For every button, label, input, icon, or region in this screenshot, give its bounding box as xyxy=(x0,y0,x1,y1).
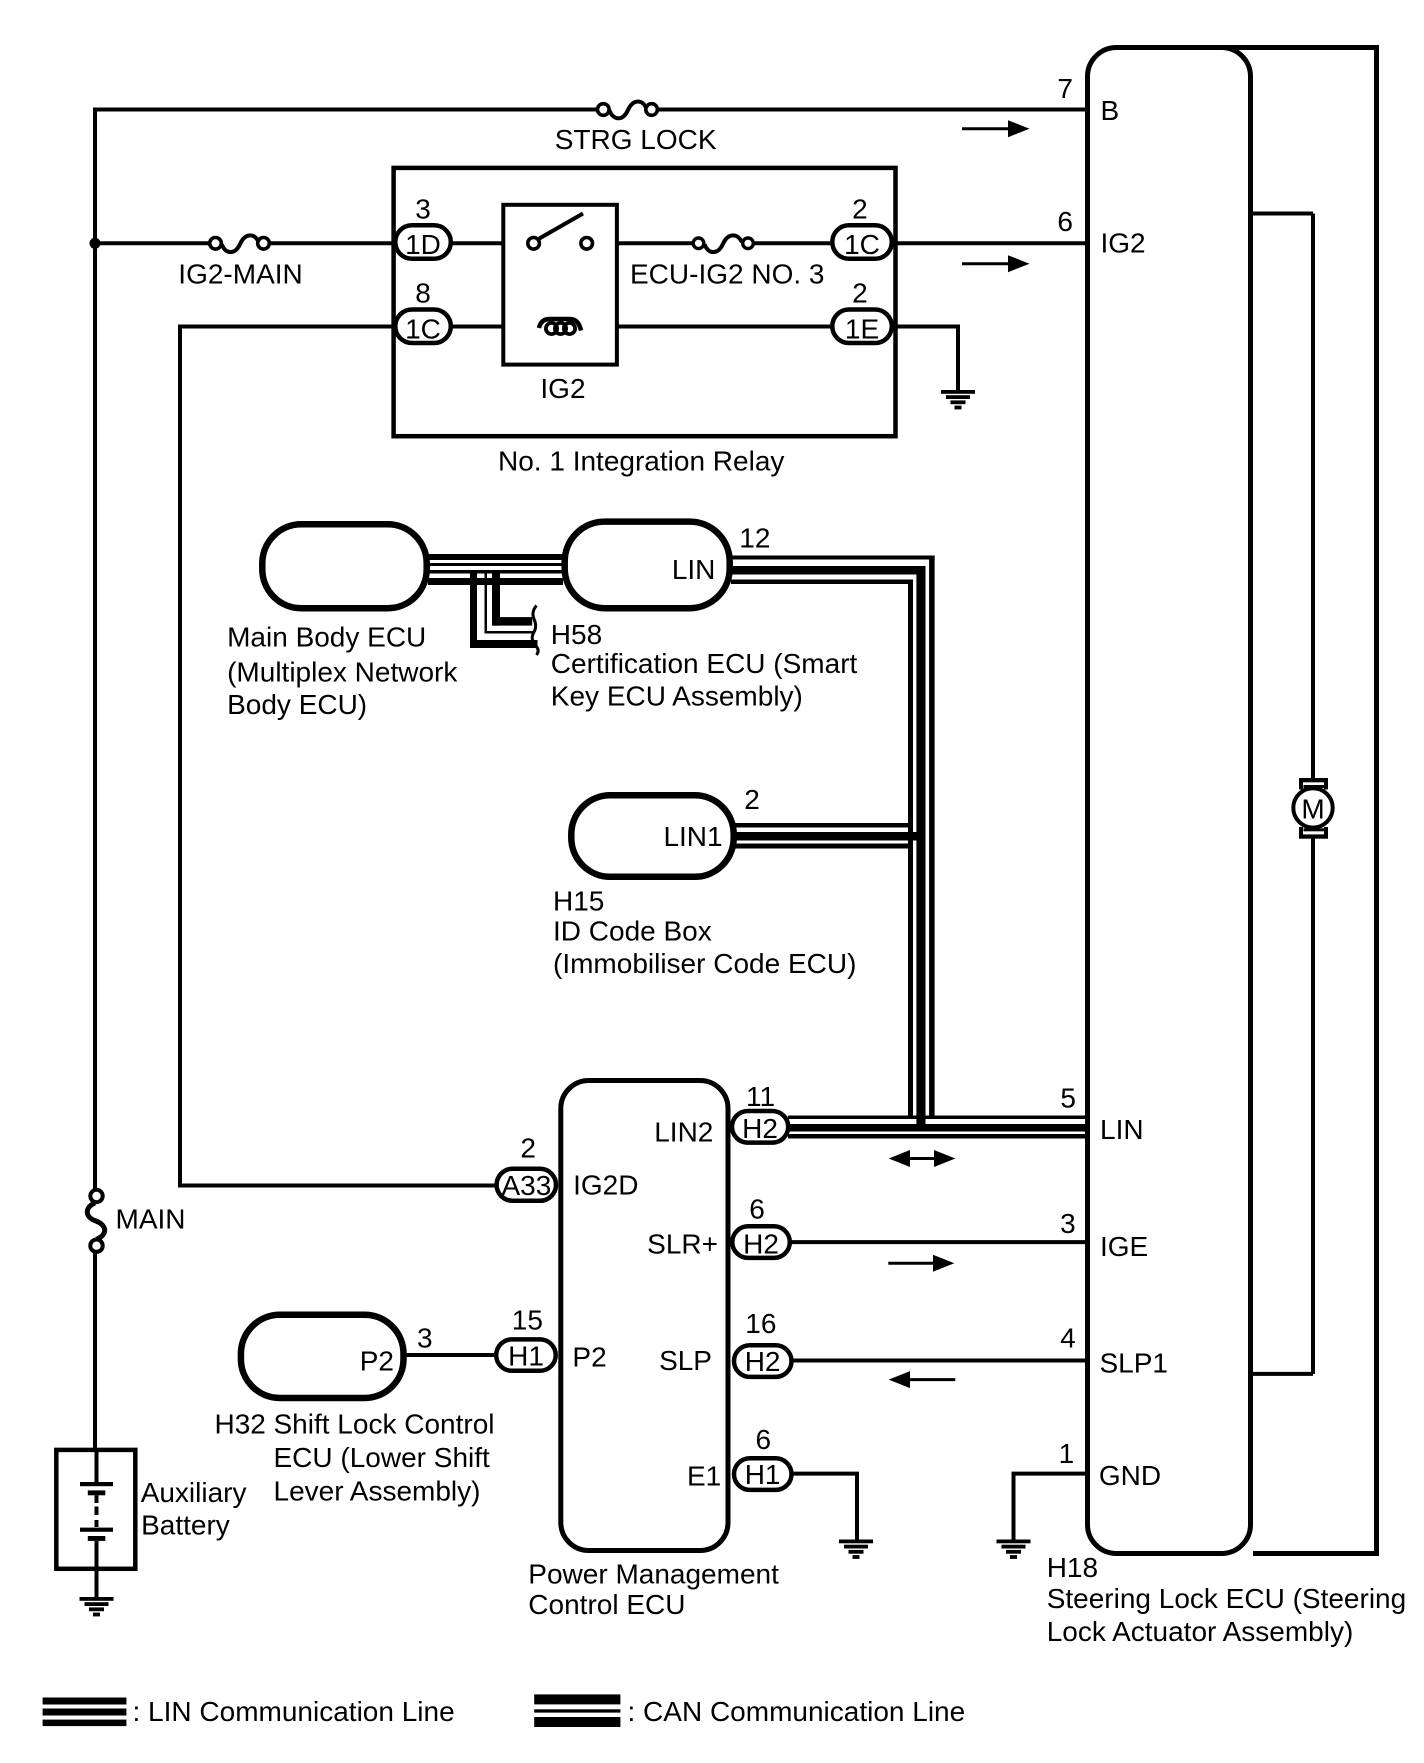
svg-text:12: 12 xyxy=(739,522,770,553)
pin 5 LIN xyxy=(1060,1083,1143,1146)
CAN/LIN band main body to certification ECU xyxy=(428,554,563,585)
svg-text:: CAN Communication Line: : CAN Communication Line xyxy=(628,1696,966,1727)
svg-text:LIN: LIN xyxy=(1100,1114,1144,1145)
svg-text:Lever Assembly): Lever Assembly) xyxy=(274,1476,481,1507)
fuse STRG LOCK xyxy=(555,102,717,155)
LIN band LIN1 to vertical band xyxy=(735,823,926,849)
arrow left SLP1 row xyxy=(889,1371,956,1388)
wire motor bottom xyxy=(1253,839,1313,1374)
svg-text:H18: H18 xyxy=(1047,1552,1098,1583)
svg-text:: LIN Communication Line: : LIN Communication Line xyxy=(133,1696,455,1727)
svg-text:ID Code Box: ID Code Box xyxy=(553,916,712,947)
svg-text:SLR+: SLR+ xyxy=(647,1229,718,1260)
svg-text:4: 4 xyxy=(1060,1323,1076,1354)
branch band to H58 arrow xyxy=(470,574,538,656)
svg-text:Body ECU): Body ECU) xyxy=(227,689,367,720)
svg-text:8: 8 xyxy=(415,278,431,309)
svg-text:H1: H1 xyxy=(745,1459,781,1490)
double arrow LIN row xyxy=(889,1150,956,1167)
connector H1 pin 15 P2 xyxy=(496,1304,606,1372)
wire 1E to ground xyxy=(892,327,958,391)
svg-text:SLP1: SLP1 xyxy=(1100,1348,1169,1379)
LIN band LIN2 row to ECU xyxy=(788,1116,1087,1139)
svg-text:Battery: Battery xyxy=(141,1510,230,1541)
connector 1D pin 3 xyxy=(395,194,451,260)
ground battery xyxy=(80,1597,114,1616)
svg-text:(Immobiliser Code ECU): (Immobiliser Code ECU) xyxy=(553,948,856,979)
svg-text:1: 1 xyxy=(1059,1438,1075,1469)
connector A33 pin 2 IG2D xyxy=(497,1132,639,1201)
svg-text:Steering Lock ECU (Steering: Steering Lock ECU (Steering xyxy=(1047,1583,1407,1614)
svg-text:11: 11 xyxy=(746,1081,775,1112)
wire IG2-MAIN row xyxy=(95,241,395,245)
svg-text:H2: H2 xyxy=(745,1346,781,1377)
LIN band vertical xyxy=(908,556,935,1132)
wire relay coil row xyxy=(451,325,832,329)
wire IG2 to ECU xyxy=(892,241,1087,245)
svg-text:No. 1 Integration Relay: No. 1 Integration Relay xyxy=(498,445,784,476)
svg-text:MAIN: MAIN xyxy=(116,1204,186,1235)
svg-text:GND: GND xyxy=(1099,1460,1161,1491)
wire H32 P2 to H1 xyxy=(404,1322,496,1355)
svg-text:5: 5 xyxy=(1060,1083,1076,1114)
node junction IG2-MAIN xyxy=(90,238,101,249)
pin 6 IG2 xyxy=(1057,206,1145,259)
pin LIN2 connector H2 pin 11 xyxy=(654,1081,788,1148)
svg-text:7: 7 xyxy=(1057,73,1073,104)
power management control ECU box xyxy=(528,1081,779,1621)
connector 1E pin 2 xyxy=(832,278,892,345)
svg-text:6: 6 xyxy=(1057,206,1073,237)
svg-text:3: 3 xyxy=(417,1322,433,1353)
svg-text:LIN1: LIN1 xyxy=(663,821,722,852)
svg-text:2: 2 xyxy=(744,784,760,815)
svg-text:IG2: IG2 xyxy=(540,373,585,404)
fuse MAIN xyxy=(87,1190,185,1252)
svg-text:3: 3 xyxy=(1060,1208,1076,1239)
svg-text:ECU-IG2 NO. 3: ECU-IG2 NO. 3 xyxy=(630,259,824,290)
ground 1E xyxy=(941,390,975,409)
svg-text:IG2: IG2 xyxy=(1101,228,1146,259)
ID code box H15 xyxy=(553,784,856,979)
svg-text:A33: A33 xyxy=(501,1170,551,1201)
svg-text:2: 2 xyxy=(852,278,868,309)
svg-text:M: M xyxy=(1301,794,1324,825)
connector H2 pin 6 SLR+ xyxy=(647,1194,790,1260)
relay coil xyxy=(539,319,581,334)
connector H1 pin 6 E1 xyxy=(687,1424,792,1491)
svg-text:IG2-MAIN: IG2-MAIN xyxy=(178,259,302,290)
main body ECU box xyxy=(227,524,458,720)
connector 1C pin 2 xyxy=(832,194,892,260)
pin 3 IGE xyxy=(1060,1208,1148,1262)
svg-text:H1: H1 xyxy=(508,1341,544,1372)
svg-text:(Multiplex Network: (Multiplex Network xyxy=(227,657,458,688)
arrow right IG2 row xyxy=(962,255,1030,272)
legend CAN symbol xyxy=(534,1694,965,1727)
svg-text:H32: H32 xyxy=(215,1409,266,1440)
relay inner box IG2 xyxy=(503,205,617,404)
wire IG2D from relay 1C to A33 xyxy=(180,327,496,1186)
svg-text:Certification ECU (Smart: Certification ECU (Smart xyxy=(551,648,858,679)
svg-text:B: B xyxy=(1101,95,1120,126)
shift lock control ECU box H32 xyxy=(215,1315,495,1507)
svg-text:IG2D: IG2D xyxy=(573,1170,638,1201)
ground GND xyxy=(997,1540,1031,1559)
connector 1C pin 8 xyxy=(395,278,451,345)
svg-text:Lock Actuator Assembly): Lock Actuator Assembly) xyxy=(1047,1616,1354,1647)
svg-text:Power Management: Power Management xyxy=(528,1559,779,1590)
svg-text:2: 2 xyxy=(520,1132,536,1163)
pin 1 GND xyxy=(1059,1438,1162,1491)
wire E1 to ground xyxy=(792,1474,858,1540)
steering lock ECU box H18 xyxy=(1047,48,1407,1648)
svg-text:P2: P2 xyxy=(360,1345,394,1376)
svg-text:LIN: LIN xyxy=(672,554,716,585)
certification ECU box H58 xyxy=(551,522,858,712)
svg-text:H15: H15 xyxy=(553,886,604,917)
svg-text:1E: 1E xyxy=(845,314,879,345)
svg-text:Main Body ECU: Main Body ECU xyxy=(227,622,426,653)
svg-text:LIN2: LIN2 xyxy=(654,1117,713,1148)
svg-text:15: 15 xyxy=(512,1304,543,1335)
svg-text:STRG LOCK: STRG LOCK xyxy=(555,124,717,155)
svg-text:3: 3 xyxy=(415,194,431,225)
wire left vertical from battery xyxy=(93,108,97,1452)
LIN band certification ECU to right corner xyxy=(731,556,935,585)
wire GND to ground xyxy=(1014,1474,1088,1540)
svg-text:H2: H2 xyxy=(742,1113,778,1144)
svg-text:Key ECU Assembly): Key ECU Assembly) xyxy=(551,681,803,712)
svg-text:H2: H2 xyxy=(743,1229,779,1260)
svg-text:Shift Lock Control: Shift Lock Control xyxy=(274,1409,495,1440)
motor M xyxy=(1293,778,1332,839)
auxiliary battery xyxy=(56,1450,246,1597)
wire B top xyxy=(93,108,1087,112)
svg-text:1D: 1D xyxy=(405,229,441,260)
relay switch contacts xyxy=(528,214,593,250)
svg-text:16: 16 xyxy=(745,1308,776,1339)
svg-text:P2: P2 xyxy=(572,1341,606,1372)
svg-text:Auxiliary: Auxiliary xyxy=(141,1477,247,1508)
svg-text:ECU (Lower Shift: ECU (Lower Shift xyxy=(274,1442,491,1473)
fuse IG2-MAIN xyxy=(178,235,302,289)
wire SLP to SLP1 xyxy=(792,1359,1088,1363)
svg-text:H58: H58 xyxy=(551,619,602,650)
svg-text:2: 2 xyxy=(852,194,868,225)
relay box No.1 Integration Relay xyxy=(394,168,896,476)
pin 7 B xyxy=(1057,73,1119,126)
arrow right IGE row xyxy=(888,1255,954,1272)
fuse ECU-IG2 NO. 3 xyxy=(630,235,824,289)
svg-text:IGE: IGE xyxy=(1100,1231,1148,1262)
svg-text:Control ECU: Control ECU xyxy=(528,1589,685,1620)
connector H2 pin 16 SLP xyxy=(659,1308,791,1377)
svg-text:1C: 1C xyxy=(405,314,441,345)
svg-text:6: 6 xyxy=(756,1424,772,1455)
arrow right B row xyxy=(962,120,1030,137)
ground E1 xyxy=(839,1540,873,1559)
legend LIN symbol xyxy=(43,1696,455,1727)
pin 4 SLP1 xyxy=(1060,1323,1168,1379)
svg-text:E1: E1 xyxy=(687,1460,721,1491)
wire SLR+ to IGE xyxy=(790,1240,1087,1244)
wire motor top xyxy=(1251,214,1314,779)
steering lock actuator assembly outline xyxy=(1220,48,1377,1554)
svg-text:1C: 1C xyxy=(844,229,880,260)
svg-text:SLP: SLP xyxy=(659,1345,712,1376)
svg-text:6: 6 xyxy=(749,1194,765,1225)
wire relay switch row xyxy=(451,241,832,245)
